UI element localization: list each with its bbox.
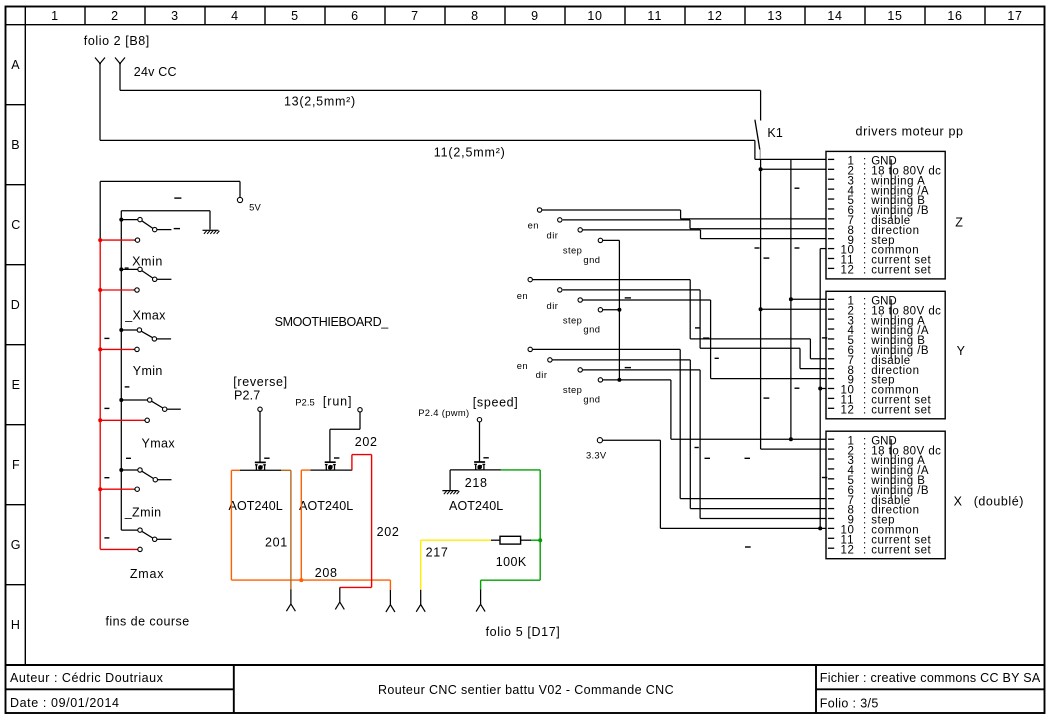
svg-text:13: 13 <box>767 9 782 23</box>
svg-text:current set: current set <box>871 544 931 556</box>
svg-text:202: 202 <box>377 525 400 539</box>
svg-text:24v CC: 24v CC <box>134 65 177 79</box>
svg-text:gnd: gnd <box>583 394 600 405</box>
svg-text:E: E <box>12 378 20 392</box>
svg-text:en: en <box>517 360 528 371</box>
svg-text:_Zmin: _Zmin <box>124 506 162 520</box>
svg-text:current set: current set <box>871 265 931 277</box>
svg-text:step: step <box>563 314 582 325</box>
svg-text:16: 16 <box>947 9 962 23</box>
svg-text:3: 3 <box>171 9 179 23</box>
svg-text:15: 15 <box>887 9 902 23</box>
svg-text:AOT240L: AOT240L <box>299 499 353 513</box>
svg-text:4: 4 <box>231 9 239 23</box>
svg-text::: : <box>863 544 867 556</box>
svg-text:SMOOTHIEBOARD_: SMOOTHIEBOARD_ <box>275 315 390 329</box>
svg-text:Xmin: Xmin <box>132 255 163 269</box>
svg-text:5: 5 <box>291 9 299 23</box>
svg-text:6: 6 <box>351 9 359 23</box>
svg-text:X: X <box>954 495 963 509</box>
svg-text:[speed]: [speed] <box>473 395 519 409</box>
svg-text:step: step <box>563 244 582 255</box>
svg-text:K1: K1 <box>767 126 783 140</box>
svg-text:fins de course: fins de course <box>106 615 190 629</box>
svg-text:C: C <box>11 218 20 232</box>
svg-text:(doublé): (doublé) <box>974 495 1024 509</box>
svg-text:dir: dir <box>547 230 559 241</box>
svg-text:14: 14 <box>827 9 842 23</box>
svg-text:202: 202 <box>355 435 378 449</box>
svg-text:12: 12 <box>841 265 855 277</box>
svg-text:D: D <box>11 298 20 312</box>
svg-text:gnd: gnd <box>583 254 600 265</box>
svg-text:P2.4 (pwm): P2.4 (pwm) <box>418 407 469 418</box>
svg-text:en: en <box>528 220 539 231</box>
svg-text:2: 2 <box>111 9 119 23</box>
svg-text:drivers moteur pp: drivers moteur pp <box>856 125 964 139</box>
svg-text::: : <box>863 405 867 417</box>
svg-text:F: F <box>12 458 20 472</box>
svg-text:17: 17 <box>1007 9 1022 23</box>
svg-text:10: 10 <box>587 9 602 23</box>
svg-text:Auteur : Cédric Doutriaux: Auteur : Cédric Doutriaux <box>10 671 164 685</box>
svg-text:100K: 100K <box>496 555 527 569</box>
svg-text:11: 11 <box>647 9 662 23</box>
svg-text:208: 208 <box>315 566 338 580</box>
svg-text:12: 12 <box>841 405 855 417</box>
svg-text:Folio : 3/5: Folio : 3/5 <box>820 696 879 710</box>
svg-text:A: A <box>11 58 20 72</box>
svg-text:P2.5: P2.5 <box>295 396 315 407</box>
svg-text:8: 8 <box>471 9 479 23</box>
svg-text:_Xmax: _Xmax <box>124 308 166 322</box>
svg-text:dir: dir <box>536 369 548 380</box>
svg-text:en: en <box>517 290 528 301</box>
svg-text:12: 12 <box>707 9 722 23</box>
svg-text:7: 7 <box>411 9 419 23</box>
svg-text:1: 1 <box>51 9 59 23</box>
svg-text:11(2,5mm²): 11(2,5mm²) <box>434 146 506 160</box>
svg-text:AOT240L: AOT240L <box>229 499 283 513</box>
svg-text:AOT240L: AOT240L <box>449 499 503 513</box>
svg-text:Fichier : creative commons CC: Fichier : creative commons CC BY SA <box>820 671 1041 685</box>
svg-text:201: 201 <box>265 535 288 549</box>
svg-text:H: H <box>11 618 20 632</box>
svg-text:Zmax: Zmax <box>130 567 164 581</box>
svg-text:13(2,5mm²): 13(2,5mm²) <box>284 94 356 108</box>
svg-text:G: G <box>11 538 20 552</box>
svg-text:dir: dir <box>547 300 559 311</box>
svg-text:218: 218 <box>465 476 488 490</box>
svg-text:9: 9 <box>531 9 539 23</box>
svg-text:Ymin: Ymin <box>133 364 163 378</box>
svg-text:step: step <box>563 384 582 395</box>
svg-text:Date : 09/01/2014: Date : 09/01/2014 <box>10 696 120 710</box>
svg-text:P2.7: P2.7 <box>234 388 260 402</box>
svg-text:Routeur CNC sentier battu V02: Routeur CNC sentier battu V02 - Commande… <box>378 683 674 697</box>
svg-text:gnd: gnd <box>583 324 600 335</box>
svg-text:current set: current set <box>871 405 931 417</box>
svg-text:Z: Z <box>955 216 963 230</box>
svg-text:[reverse]: [reverse] <box>233 375 287 389</box>
svg-text:folio 5 [D17]: folio 5 [D17] <box>486 625 561 639</box>
svg-text:5V: 5V <box>249 202 261 213</box>
svg-text:B: B <box>11 138 19 152</box>
svg-text:12: 12 <box>841 544 855 556</box>
svg-text:217: 217 <box>426 546 449 560</box>
svg-text:[run]: [run] <box>323 394 353 408</box>
svg-text:Ymax: Ymax <box>142 436 176 450</box>
svg-text:3.3V: 3.3V <box>586 450 607 461</box>
svg-text:folio 2 [B8]: folio 2 [B8] <box>84 34 150 48</box>
svg-text::: : <box>863 265 867 277</box>
